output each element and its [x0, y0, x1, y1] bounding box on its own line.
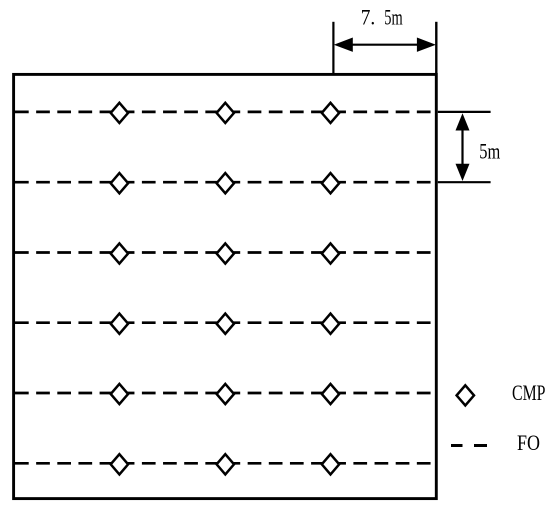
CMP marker row4 col3 — [322, 314, 339, 334]
legend FO dashed sample — [451, 444, 487, 447]
FO line 2 — [15, 181, 432, 184]
CMP marker row1 col3 — [322, 103, 339, 123]
svg-text:5m: 5m — [384, 4, 402, 29]
FO line 5 — [15, 392, 432, 395]
dimension arrowhead left 7.5m — [334, 38, 353, 52]
CMP marker row2 col3 — [322, 173, 339, 193]
CMP marker row3 col3 — [322, 243, 339, 263]
legend CMP marker — [457, 385, 474, 405]
FO line 1 — [15, 111, 432, 114]
dimension extension tick right (top 7.5m) — [435, 22, 437, 74]
CMP marker row2 col1 — [111, 173, 128, 193]
dimension extension line upper (right 5m) — [438, 111, 491, 113]
dimension arrowhead right 7.5m — [417, 38, 436, 52]
dimension arrowhead top 5m — [456, 113, 470, 130]
svg-text:7.: 7. — [361, 4, 376, 29]
CMP marker row6 col2 — [217, 454, 234, 474]
CMP marker row6 col1 — [111, 454, 128, 474]
CMP marker row1 col1 — [111, 103, 128, 123]
dimension arrow shaft 5m — [461, 126, 463, 168]
CMP marker row5 col2 — [217, 384, 234, 404]
svg-text:5m: 5m — [479, 139, 500, 164]
CMP marker row3 col1 — [111, 243, 128, 263]
CMP marker row2 col2 — [217, 173, 234, 193]
svg-text:CMP: CMP — [512, 380, 546, 405]
CMP marker row6 col3 — [322, 454, 339, 474]
survey area outline — [14, 74, 437, 498]
CMP marker row3 col2 — [217, 243, 234, 263]
dimension arrowhead bottom 5m — [456, 164, 470, 181]
FO line 4 — [15, 321, 432, 324]
CMP marker row5 col3 — [322, 384, 339, 404]
svg-text:FO: FO — [517, 430, 540, 455]
CMP marker row1 col2 — [217, 103, 234, 123]
dimension extension tick left (top 7.5m) — [332, 22, 334, 73]
CMP marker row4 col1 — [111, 314, 128, 334]
CMP marker row4 col2 — [217, 314, 234, 334]
CMP marker row5 col1 — [111, 384, 128, 404]
FO line 6 — [15, 462, 432, 465]
FO line 3 — [15, 251, 432, 254]
dimension extension line lower (right 5m) — [438, 181, 491, 183]
dimension arrow shaft 7.5m — [350, 44, 420, 46]
